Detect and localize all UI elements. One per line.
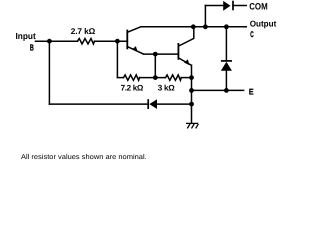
node rail 3k junction xyxy=(189,75,194,80)
wire input to resistor xyxy=(36,40,78,42)
svg-text:Input: Input xyxy=(16,31,36,41)
svg-text:E: E xyxy=(249,86,254,96)
wire resistor to Q1 base xyxy=(95,40,128,42)
resistor R2 7.2 kOhm xyxy=(124,75,140,80)
svg-text:3 kΩ: 3 kΩ xyxy=(158,83,176,92)
wire E line xyxy=(192,89,244,91)
svg-text:7.2 kΩ: 7.2 kΩ xyxy=(121,83,144,92)
node rail E junction xyxy=(189,88,194,93)
wire to resistor R2 xyxy=(117,77,123,79)
transistor Q1 xyxy=(127,27,143,54)
wire diode D2 to E line xyxy=(225,71,227,91)
node A xyxy=(47,39,52,44)
wire diode D3 to emitter rail xyxy=(157,103,192,105)
svg-text:B: B xyxy=(30,43,34,53)
transistor Q2 xyxy=(178,27,193,66)
node E D2 junction xyxy=(224,88,229,93)
wire resistor R3 to rail xyxy=(181,77,191,79)
svg-text:COM: COM xyxy=(249,1,268,11)
wire output line down to diode D2 xyxy=(225,27,227,61)
node B xyxy=(115,39,120,44)
wire node A down xyxy=(48,41,50,104)
node resistor junction xyxy=(153,75,158,80)
wire node C vertical xyxy=(154,54,156,78)
node output D2 branch xyxy=(224,24,229,29)
diode D1 (to COM) xyxy=(223,1,233,11)
wire COM vertical xyxy=(204,6,206,27)
diode D2 (output clamp) xyxy=(221,61,232,71)
wire between resistors xyxy=(140,77,166,79)
emitter rail xyxy=(191,65,193,123)
svg-text:Output: Output xyxy=(250,18,277,28)
node C emitter-base junction xyxy=(153,52,158,57)
node output collector xyxy=(191,24,196,29)
wire node B down to resistor row xyxy=(116,41,118,77)
node output COM branch xyxy=(203,24,208,29)
wire diode D1 to COM label xyxy=(233,5,246,7)
wire COM to diode D1 xyxy=(205,5,223,7)
svg-text:2.7 kΩ: 2.7 kΩ xyxy=(71,26,96,36)
svg-text:All resistor values shown are: All resistor values shown are nominal. xyxy=(21,153,147,161)
node rail bottom junction xyxy=(189,102,194,107)
diode D3 (input clamp) xyxy=(148,99,157,109)
svg-text:C: C xyxy=(250,30,253,39)
ground xyxy=(186,123,198,128)
resistor R3 3 kOhm xyxy=(166,75,182,80)
wire bottom run to diode D3 xyxy=(49,103,148,105)
output line xyxy=(141,26,247,28)
resistor R1 2.7 kOhm xyxy=(78,39,95,44)
wire Q1 emitter to Q2 base xyxy=(144,53,179,55)
